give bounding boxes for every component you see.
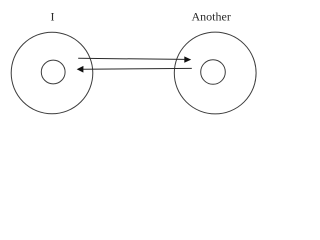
state I inner circle	[41, 60, 65, 84]
state Another outer circle	[174, 32, 256, 114]
svg-text:Another: Another	[192, 9, 231, 23]
state I outer circle	[11, 32, 93, 114]
arrow Another to I (head)	[77, 66, 84, 73]
svg-text:I: I	[51, 9, 55, 23]
arrow I to Another (head)	[184, 56, 191, 62]
state Another inner circle	[201, 60, 226, 85]
arrow Another to I (shaft)	[83, 67, 192, 70]
arrow I to Another (shaft)	[78, 58, 184, 59]
